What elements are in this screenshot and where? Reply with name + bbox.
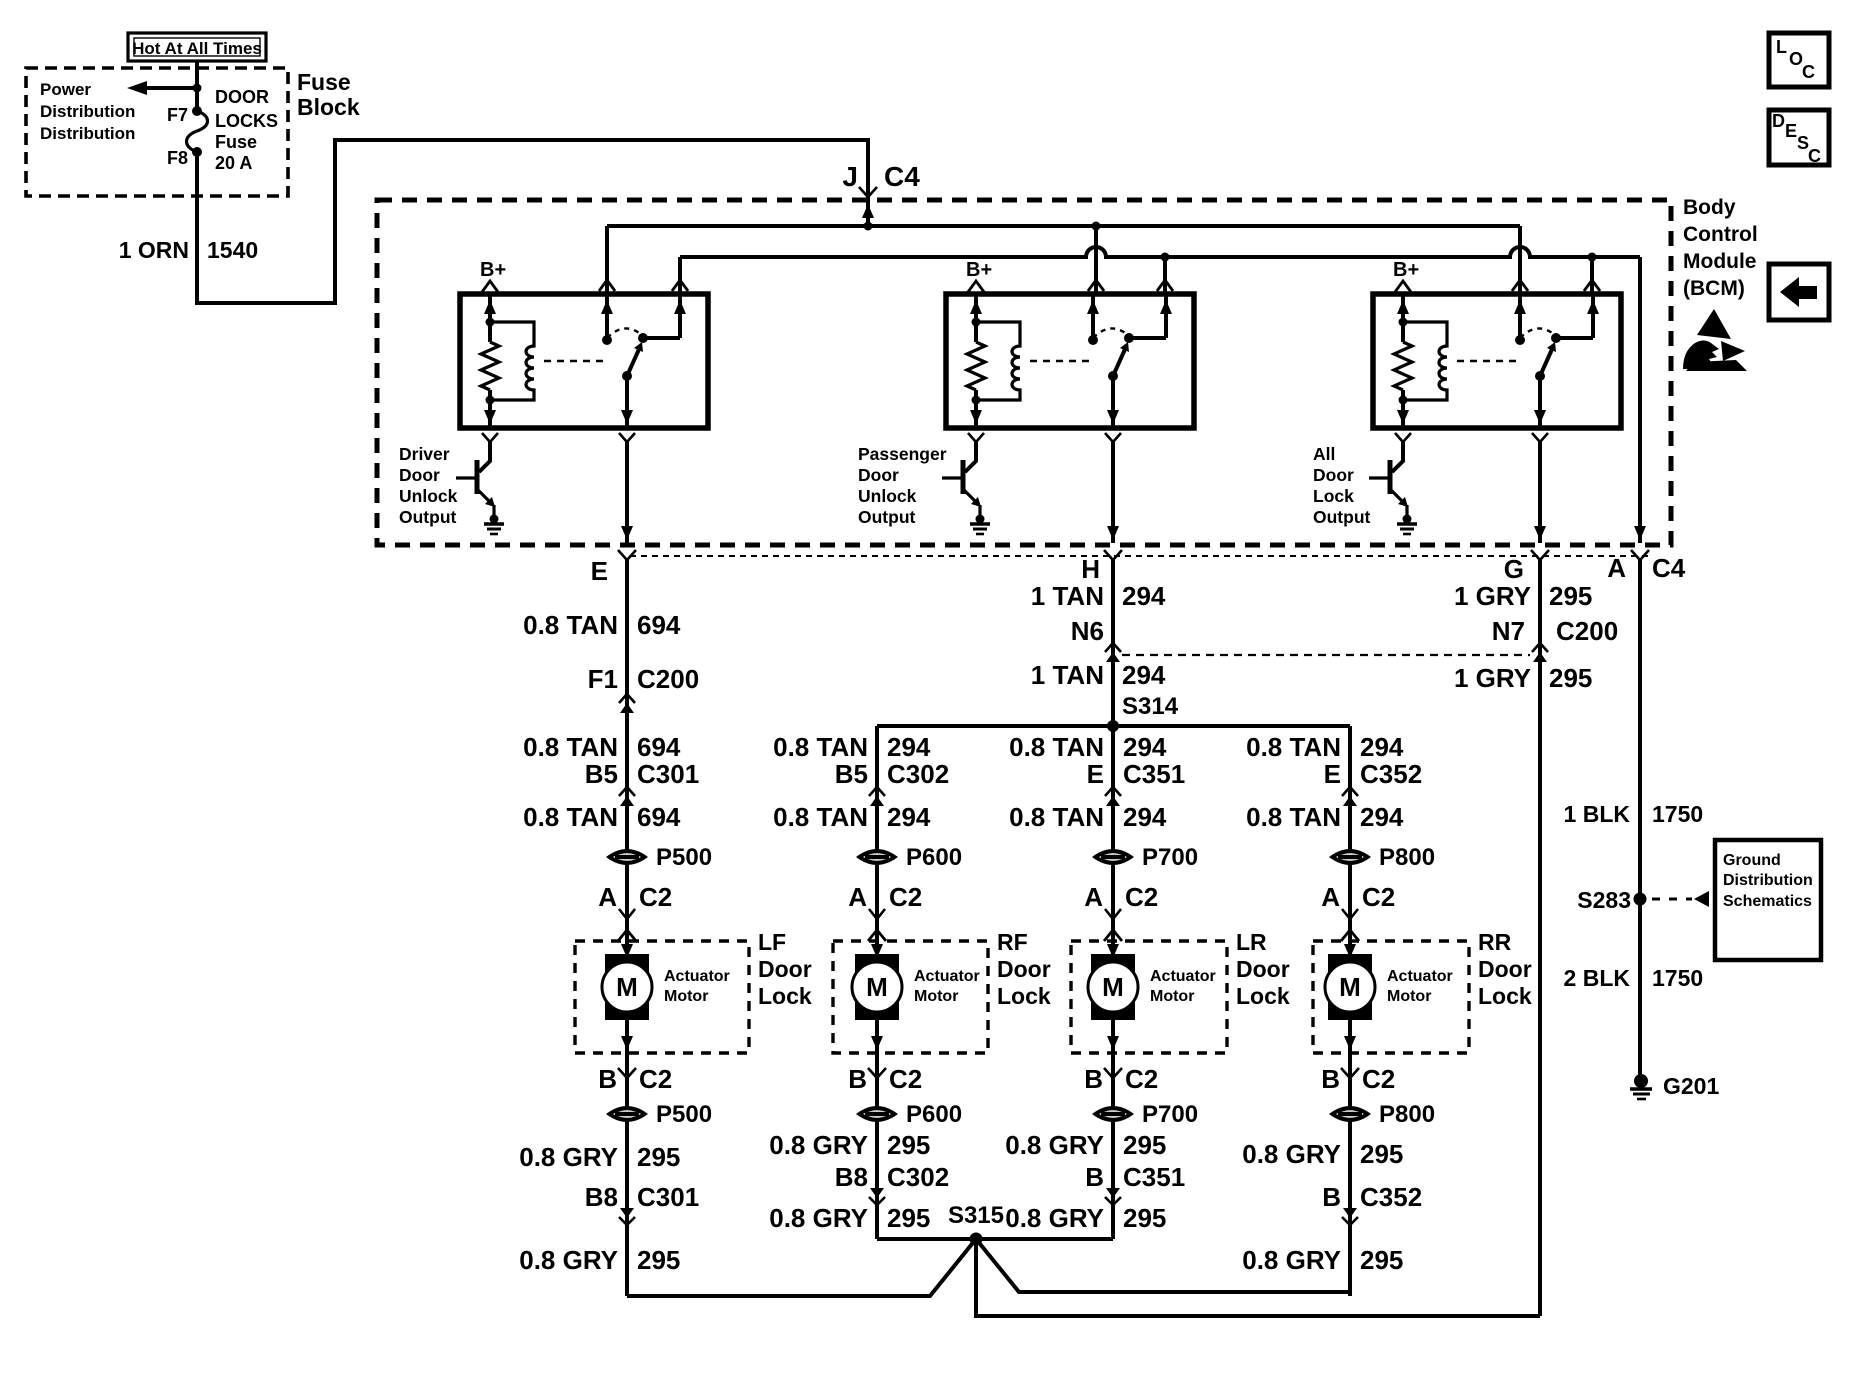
- wire branch to C302: [875, 726, 879, 941]
- wire branch to C352: [1348, 726, 1352, 941]
- svg-text:0.8 TAN: 0.8 TAN: [773, 802, 868, 832]
- svg-text:0.8 GRY: 0.8 GRY: [1005, 1203, 1104, 1233]
- door lock actuator box RF: [833, 941, 988, 1053]
- svg-text:Passenger: Passenger: [858, 444, 947, 464]
- wire 1 ORN 1540 from fuse to BCM: [197, 140, 868, 303]
- icon back arrow box: [1769, 264, 1829, 320]
- svg-text:C301: C301: [637, 759, 699, 789]
- ground Q2 passenger door unlock: [970, 515, 990, 535]
- label 0.8 GRY 295 (col4 upper): [1242, 1139, 1403, 1169]
- relay K2 passenger unlock resistor: [967, 294, 985, 428]
- svg-text:E: E: [591, 556, 608, 586]
- svg-text:295: 295: [1360, 1245, 1403, 1275]
- label 1 TAN 294 (H mid): [1031, 660, 1166, 690]
- text Actuator Motor (col4): [1387, 968, 1453, 1005]
- relay K3 all lock switch: [1514, 294, 1599, 428]
- relay K3 all lock coil: [1403, 322, 1522, 400]
- svg-text:Unlock: Unlock: [858, 486, 917, 506]
- connector P600 lower grommet: [856, 1101, 962, 1128]
- node A C4: [1607, 553, 1686, 583]
- svg-text:Hot At All Times: Hot At All Times: [132, 39, 262, 58]
- svg-text:694: 694: [637, 802, 681, 832]
- svg-text:C2: C2: [889, 1064, 922, 1094]
- text RR Door Lock: [1478, 929, 1532, 1009]
- svg-text:B: B: [848, 1064, 867, 1094]
- connector C4 dashed line: [630, 555, 1652, 557]
- text Q2 passenger door unlock output label: [858, 444, 947, 527]
- relay K1 driver unlock coil: [490, 322, 609, 400]
- wire motor return (col2): [875, 1053, 879, 1239]
- svg-text:Actuator: Actuator: [914, 968, 980, 985]
- text Q3 all door lock output label: [1313, 444, 1371, 527]
- svg-text:Schematics: Schematics: [1723, 893, 1812, 910]
- wire hot feed with arrow to power distribution: [127, 61, 202, 113]
- ground Q3 all door lock: [1397, 515, 1417, 535]
- svg-text:0.8 GRY: 0.8 GRY: [1005, 1130, 1104, 1160]
- motor M2 actuator: [852, 941, 902, 1053]
- BCM dashed box: [377, 200, 1671, 545]
- text Q1 driver door unlock output label: [399, 444, 458, 527]
- door lock actuator box LF: [575, 941, 749, 1053]
- svg-text:0.8 TAN: 0.8 TAN: [1009, 732, 1104, 762]
- svg-text:Ground: Ground: [1723, 852, 1781, 869]
- svg-text:0.8 GRY: 0.8 GRY: [769, 1203, 868, 1233]
- wire motor return (col4): [1348, 1053, 1352, 1296]
- svg-text:B5: B5: [835, 759, 868, 789]
- svg-text:B: B: [1084, 1064, 1103, 1094]
- relay K3 all lock box: [1373, 294, 1621, 428]
- transistor Q1 driver door unlock driver: [456, 442, 495, 519]
- svg-text:C2: C2: [1362, 882, 1395, 912]
- connector E C352: [1324, 759, 1423, 806]
- svg-text:A: A: [1084, 882, 1103, 912]
- connector P700 lower grommet: [1092, 1101, 1198, 1128]
- label 0.8 TAN 294 (col4 below C30x): [1246, 802, 1404, 832]
- svg-text:Fuse: Fuse: [215, 132, 257, 152]
- svg-text:C352: C352: [1360, 1182, 1422, 1212]
- connector P800 lower grommet: [1329, 1101, 1435, 1128]
- svg-text:S283: S283: [1577, 887, 1631, 913]
- svg-text:Lock: Lock: [997, 983, 1051, 1009]
- svg-text:RR: RR: [1478, 929, 1512, 955]
- connector C4 chevron at x=1540: [1531, 550, 1549, 560]
- svg-text:Output: Output: [858, 507, 916, 527]
- connector C4 chevron at x=627: [618, 550, 636, 560]
- svg-text:0.8 TAN: 0.8 TAN: [1246, 732, 1341, 762]
- svg-text:Distribution: Distribution: [1723, 872, 1813, 889]
- text LR Door Lock: [1236, 929, 1290, 1009]
- door lock actuator box LR: [1071, 941, 1227, 1053]
- svg-text:1 GRY: 1 GRY: [1454, 581, 1531, 611]
- wire bus1 B+ feed: [607, 222, 1520, 231]
- svg-text:C2: C2: [639, 1064, 672, 1094]
- svg-text:1750: 1750: [1652, 965, 1703, 991]
- node E: [591, 556, 608, 586]
- svg-text:294: 294: [887, 732, 931, 762]
- svg-text:M: M: [616, 972, 638, 1002]
- svg-text:E: E: [1324, 759, 1341, 789]
- svg-text:P700: P700: [1142, 844, 1198, 871]
- splice S315: [877, 1202, 1113, 1246]
- node G: [1504, 554, 1524, 584]
- svg-text:C4: C4: [1652, 553, 1686, 583]
- box Ground Distribution Schematics: [1715, 840, 1821, 960]
- svg-text:Door: Door: [1478, 956, 1532, 982]
- svg-text:F1: F1: [588, 664, 618, 694]
- svg-text:Motor: Motor: [664, 988, 708, 1005]
- svg-text:0.8 TAN: 0.8 TAN: [523, 802, 618, 832]
- svg-text:295: 295: [637, 1245, 680, 1275]
- svg-text:M: M: [1102, 972, 1124, 1002]
- svg-text:(BCM): (BCM): [1683, 277, 1745, 300]
- svg-text:Door: Door: [399, 465, 440, 485]
- svg-text:694: 694: [637, 610, 681, 640]
- node H: [1081, 554, 1100, 584]
- svg-text:C352: C352: [1360, 759, 1422, 789]
- svg-text:0.8 TAN: 0.8 TAN: [1246, 802, 1341, 832]
- svg-text:C200: C200: [637, 664, 699, 694]
- text Fuse Block: [297, 69, 360, 120]
- wire relay3 left contact feed with hop: [1512, 226, 1528, 294]
- label 0.8 GRY 295 (col1 lower): [519, 1245, 680, 1275]
- relay K1 driver unlock box: [460, 294, 708, 428]
- svg-text:20 A: 20 A: [215, 153, 252, 173]
- relay K3 all lock resistor: [1394, 294, 1412, 428]
- label 0.8 TAN 694 (col1 above C30x): [523, 732, 681, 762]
- relay K1 driver unlock switch: [601, 294, 686, 428]
- svg-text:294: 294: [1360, 802, 1404, 832]
- svg-text:A: A: [1607, 553, 1626, 583]
- svg-text:C4: C4: [884, 161, 920, 192]
- label 1 TAN 294 (H upper): [1031, 581, 1166, 611]
- label 1 BLK 1750: [1564, 801, 1704, 827]
- svg-text:B+: B+: [480, 259, 506, 281]
- wire relay output to pin E: [621, 442, 633, 543]
- wire bus2 feed: [680, 247, 1640, 262]
- connector B C2 (col3): [1084, 1064, 1158, 1094]
- door lock actuator box RR: [1313, 941, 1469, 1053]
- svg-text:Control: Control: [1683, 223, 1758, 246]
- label Hot At All Times: [128, 33, 266, 61]
- text Body Control Module (BCM): [1683, 196, 1758, 300]
- svg-text:RF: RF: [997, 929, 1028, 955]
- svg-text:Door: Door: [1236, 956, 1290, 982]
- relay K1 driver unlock resistor: [481, 294, 499, 428]
- svg-text:LF: LF: [758, 929, 786, 955]
- label 0.8 GRY 295 (col2 lower): [769, 1203, 930, 1233]
- svg-text:S315: S315: [948, 1202, 1004, 1229]
- svg-text:295: 295: [637, 1142, 680, 1172]
- svg-text:Motor: Motor: [1387, 988, 1431, 1005]
- wire relay1 left contact feed: [599, 226, 615, 294]
- svg-text:C2: C2: [1125, 882, 1158, 912]
- connector P800 upper grommet: [1329, 844, 1435, 871]
- svg-text:Driver: Driver: [399, 444, 450, 464]
- svg-text:294: 294: [1122, 660, 1166, 690]
- connector P700 upper grommet: [1092, 844, 1198, 871]
- svg-text:Lock: Lock: [758, 983, 812, 1009]
- text RF Door Lock: [997, 929, 1051, 1009]
- label 0.8 TAN 294 (col2 below C30x): [773, 802, 931, 832]
- svg-text:C2: C2: [889, 882, 922, 912]
- motor M4 actuator: [1325, 941, 1375, 1053]
- connector B5 C301: [585, 759, 699, 806]
- svg-text:1 GRY: 1 GRY: [1454, 663, 1531, 693]
- svg-text:Output: Output: [399, 507, 457, 527]
- relay K1 driver unlock output chevrons: [482, 433, 635, 442]
- label 1 GRY 295 (G mid): [1454, 663, 1592, 693]
- svg-text:P600: P600: [906, 1101, 962, 1128]
- text Actuator Motor (col2): [914, 968, 980, 1005]
- svg-text:E: E: [1785, 121, 1797, 141]
- svg-text:1 TAN: 1 TAN: [1031, 581, 1104, 611]
- wire relay3 right contact feed: [1584, 257, 1600, 294]
- svg-text:1750: 1750: [1652, 801, 1703, 827]
- svg-text:All: All: [1313, 444, 1335, 464]
- svg-text:0.8 TAN: 0.8 TAN: [1009, 802, 1104, 832]
- ground Q1 driver door unlock: [484, 515, 504, 535]
- relay K2 passenger unlock coil: [976, 322, 1095, 400]
- svg-text:295: 295: [887, 1130, 930, 1160]
- svg-text:Lock: Lock: [1478, 983, 1532, 1009]
- connector C4 chevron at x=1640: [1631, 550, 1649, 560]
- svg-text:Door: Door: [1313, 465, 1354, 485]
- label 0.8 TAN 294 (col2 above C30x): [773, 732, 931, 762]
- splice S283: [1577, 887, 1709, 913]
- svg-text:Power: Power: [40, 80, 91, 99]
- wire BCM internal to pin A: [1634, 257, 1646, 543]
- svg-text:Actuator: Actuator: [664, 968, 730, 985]
- svg-text:294: 294: [1123, 802, 1167, 832]
- svg-text:295: 295: [1549, 581, 1592, 611]
- svg-text:C: C: [1808, 146, 1821, 166]
- label 0.8 GRY 295 (col4 lower): [1242, 1245, 1403, 1275]
- svg-text:1 ORN: 1 ORN: [119, 237, 189, 263]
- svg-text:Door: Door: [997, 956, 1051, 982]
- ground G201: [1630, 1073, 1719, 1099]
- wire LF return to S315: [627, 1239, 976, 1296]
- connector A C2 (col3): [1084, 882, 1158, 941]
- text Actuator Motor (col3): [1150, 968, 1216, 1005]
- icon ESD warning: [1683, 309, 1747, 371]
- wire A ground 1 BLK 1750: [1638, 558, 1642, 1081]
- svg-text:C2: C2: [1125, 1064, 1158, 1094]
- svg-text:N7: N7: [1492, 616, 1525, 646]
- connector C4 chevron at x=1113: [1104, 550, 1122, 560]
- svg-text:P500: P500: [656, 844, 712, 871]
- svg-text:D: D: [1772, 111, 1785, 131]
- wire relay output to pin G: [1534, 442, 1546, 543]
- node J C4 entry to BCM: [842, 161, 920, 231]
- svg-text:C301: C301: [637, 1182, 699, 1212]
- connector B C352: [1322, 1182, 1422, 1225]
- svg-text:Actuator: Actuator: [1150, 968, 1216, 985]
- svg-text:1 BLK: 1 BLK: [1564, 801, 1631, 827]
- fuse block box: [26, 68, 288, 196]
- svg-text:0.8 TAN: 0.8 TAN: [523, 610, 618, 640]
- icon DESC box: [1769, 110, 1829, 166]
- motor M3 actuator: [1088, 941, 1138, 1053]
- svg-text:295: 295: [1123, 1203, 1166, 1233]
- svg-text:M: M: [1339, 972, 1361, 1002]
- svg-text:LR: LR: [1236, 929, 1267, 955]
- svg-text:P700: P700: [1142, 1101, 1198, 1128]
- svg-text:B8: B8: [585, 1182, 618, 1212]
- relay K1 driver unlock B+ label: [480, 259, 506, 292]
- connector B C2 (col2): [848, 1064, 922, 1094]
- svg-text:DOOR: DOOR: [215, 87, 269, 107]
- svg-text:Motor: Motor: [1150, 988, 1194, 1005]
- svg-text:C: C: [1802, 62, 1815, 82]
- relay K3 all lock output chevrons: [1395, 433, 1548, 442]
- svg-text:B+: B+: [1393, 259, 1419, 281]
- svg-text:G: G: [1504, 554, 1524, 584]
- svg-text:0.8 GRY: 0.8 GRY: [769, 1130, 868, 1160]
- svg-text:0.8 GRY: 0.8 GRY: [519, 1245, 618, 1275]
- svg-text:Lock: Lock: [1236, 983, 1290, 1009]
- svg-text:295: 295: [1123, 1130, 1166, 1160]
- relay K3 all lock B+ label: [1393, 259, 1419, 292]
- svg-text:294: 294: [887, 802, 931, 832]
- connector E C351: [1087, 759, 1186, 806]
- svg-text:P800: P800: [1379, 1101, 1435, 1128]
- svg-text:P500: P500: [656, 1101, 712, 1128]
- svg-text:1 TAN: 1 TAN: [1031, 660, 1104, 690]
- wire motor return (col3): [1111, 1053, 1115, 1239]
- svg-text:Door: Door: [758, 956, 812, 982]
- svg-text:Actuator: Actuator: [1387, 968, 1453, 985]
- svg-text:C302: C302: [887, 759, 949, 789]
- label 0.8 GRY 295 (col3 upper): [1005, 1130, 1166, 1160]
- wire relay1 right contact feed: [672, 257, 688, 294]
- svg-text:E: E: [1087, 759, 1104, 789]
- label 0.8 TAN 294 (col4 above C30x): [1246, 732, 1404, 762]
- connector B5 C302: [835, 759, 949, 806]
- svg-text:Output: Output: [1313, 507, 1371, 527]
- relay K2 passenger unlock output chevrons: [968, 433, 1121, 442]
- svg-text:0.8 GRY: 0.8 GRY: [1242, 1245, 1341, 1275]
- label 0.8 GRY 295 (col2 upper): [769, 1130, 930, 1160]
- svg-text:Distribution: Distribution: [40, 102, 135, 121]
- svg-text:F8: F8: [167, 148, 188, 168]
- svg-text:C2: C2: [1362, 1064, 1395, 1094]
- relay K2 passenger unlock B+ label: [966, 259, 992, 292]
- svg-text:Block: Block: [297, 94, 360, 120]
- svg-text:B: B: [1322, 1182, 1341, 1212]
- svg-text:Body: Body: [1683, 196, 1736, 219]
- svg-text:F7: F7: [167, 105, 188, 125]
- svg-text:1540: 1540: [207, 237, 258, 263]
- text LF Door Lock: [758, 929, 812, 1009]
- svg-text:Distribution: Distribution: [40, 124, 135, 143]
- wire E column 0.8 TAN 694: [625, 558, 629, 941]
- svg-text:G201: G201: [1663, 1073, 1719, 1099]
- label 0.8 TAN 294 (col3 below C30x): [1009, 802, 1167, 832]
- svg-text:295: 295: [887, 1203, 930, 1233]
- svg-text:P600: P600: [906, 844, 962, 871]
- label 2 BLK 1750: [1564, 965, 1704, 991]
- svg-text:295: 295: [1360, 1139, 1403, 1169]
- motor M1 actuator: [602, 941, 652, 1053]
- wire S315 to G return: [976, 1239, 1540, 1316]
- label 0.8 GRY 295 (col1 upper): [519, 1142, 680, 1172]
- svg-text:N6: N6: [1071, 616, 1104, 646]
- svg-text:A: A: [848, 882, 867, 912]
- text Power Distribution: [40, 80, 135, 143]
- svg-text:294: 294: [1360, 732, 1404, 762]
- svg-text:H: H: [1081, 554, 1100, 584]
- relay K2 passenger unlock switch: [1087, 294, 1172, 428]
- svg-text:O: O: [1789, 49, 1803, 69]
- svg-text:C200: C200: [1556, 616, 1618, 646]
- text Actuator Motor (col1): [664, 968, 730, 1005]
- svg-text:B: B: [1321, 1064, 1340, 1094]
- wire relay output to pin H: [1107, 442, 1119, 543]
- connector B8 C301: [585, 1182, 699, 1225]
- splice S314: [877, 693, 1350, 732]
- svg-text:C351: C351: [1123, 1162, 1185, 1192]
- svg-text:M: M: [866, 972, 888, 1002]
- label 1 ORN 1540: [119, 237, 258, 263]
- svg-text:B+: B+: [966, 259, 992, 281]
- svg-text:Lock: Lock: [1313, 486, 1354, 506]
- svg-text:A: A: [1321, 882, 1340, 912]
- connector A C2 (col4): [1321, 882, 1395, 941]
- label 0.8 TAN 694 (col1 below C30x): [523, 802, 681, 832]
- svg-text:A: A: [598, 882, 617, 912]
- connector A C2 (col1): [598, 882, 672, 941]
- label 1 GRY 295 (G upper): [1454, 581, 1592, 611]
- connector B C351: [1085, 1162, 1185, 1205]
- svg-text:694: 694: [637, 732, 681, 762]
- svg-text:0.8 GRY: 0.8 GRY: [1242, 1139, 1341, 1169]
- svg-text:B8: B8: [835, 1162, 868, 1192]
- svg-text:Door: Door: [858, 465, 899, 485]
- wire motor return (col1): [625, 1053, 629, 1296]
- svg-text:Module: Module: [1683, 250, 1757, 273]
- svg-text:C2: C2: [639, 882, 672, 912]
- svg-text:S314: S314: [1122, 693, 1179, 720]
- connector B8 C302: [835, 1162, 949, 1205]
- connector N7 C200: [1492, 616, 1618, 662]
- icon LOC box: [1769, 33, 1829, 87]
- relay K2 passenger unlock box: [946, 294, 1194, 428]
- dashed link N6 to N7: [1122, 654, 1530, 656]
- svg-text:0.8 TAN: 0.8 TAN: [523, 732, 618, 762]
- connector B C2 (col1): [598, 1064, 672, 1094]
- wire G return 1 GRY 295: [1538, 558, 1542, 1316]
- svg-text:C302: C302: [887, 1162, 949, 1192]
- connector B C2 (col4): [1321, 1064, 1395, 1094]
- connector N6: [1071, 616, 1121, 662]
- svg-text:L: L: [1776, 37, 1787, 57]
- connector P500 upper grommet: [606, 844, 712, 871]
- transistor Q3 all door lock driver: [1369, 442, 1408, 519]
- text DOOR LOCKS Fuse 20 A: [215, 87, 278, 173]
- wire relay2 left contact feed with hop: [1088, 226, 1104, 294]
- connector F1 C200: [588, 664, 700, 713]
- svg-text:294: 294: [1123, 732, 1167, 762]
- label 0.8 TAN 294 (col3 above C30x): [1009, 732, 1167, 762]
- svg-text:2 BLK: 2 BLK: [1564, 965, 1631, 991]
- svg-text:B: B: [1085, 1162, 1104, 1192]
- svg-text:J: J: [842, 161, 858, 192]
- wire relay2 right contact feed: [1157, 257, 1173, 294]
- fuse F7/F8 DOOR LOCKS 20A: [167, 105, 208, 168]
- svg-text:0.8 TAN: 0.8 TAN: [773, 732, 868, 762]
- label 0.8 GRY 295 (col3 lower): [1005, 1203, 1166, 1233]
- svg-text:Fuse: Fuse: [297, 69, 351, 95]
